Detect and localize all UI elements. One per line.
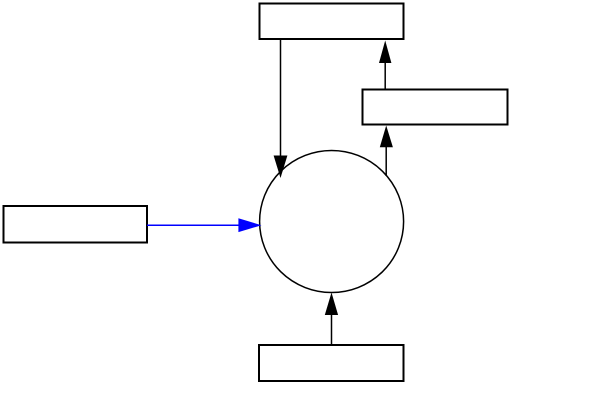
right process box: [363, 90, 508, 125]
arrowhead: up into top box: [379, 41, 391, 64]
wire: top box down to circle: [280, 39, 282, 156]
top process box: [260, 4, 404, 40]
left process box: [4, 206, 148, 243]
central circle node: [260, 151, 404, 293]
bottom process box: [259, 345, 404, 381]
wire: bottom box up to circle: [331, 314, 333, 345]
wire: right box up to top box: [384, 62, 386, 90]
wire: circle up to right box: [385, 146, 387, 176]
arrowhead: up into right box: [380, 126, 393, 148]
arrowhead: down into circle: [274, 156, 288, 179]
wire: left box to circle (blue): [147, 224, 240, 226]
arrowhead: blue into circle: [238, 218, 261, 232]
arrowhead: up into circle bottom: [325, 293, 338, 316]
